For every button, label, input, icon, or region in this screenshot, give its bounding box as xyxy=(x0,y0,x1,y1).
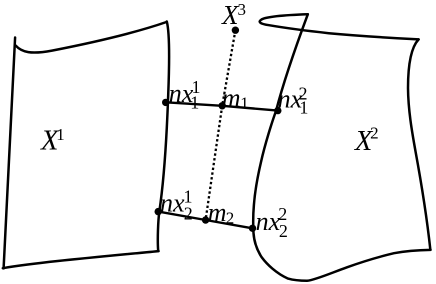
segment nx21-m2-nx22 xyxy=(158,212,252,229)
segment nx11-m1-nx12 xyxy=(166,102,278,110)
node m1 dot xyxy=(219,102,226,109)
svg-text:1: 1 xyxy=(190,92,199,112)
patch X2 top curl xyxy=(260,14,419,39)
svg-text:nx: nx xyxy=(160,188,185,217)
node nx22 dot xyxy=(249,225,256,232)
node nx11 dot xyxy=(162,99,169,106)
patch X1 right edge xyxy=(158,22,169,251)
patch X2 left edge and bottom edge xyxy=(253,14,430,281)
svg-text:m: m xyxy=(222,84,241,113)
patch X1 top edge xyxy=(15,22,166,53)
svg-text:2: 2 xyxy=(370,124,379,143)
node X3 dot xyxy=(232,27,239,34)
svg-text:1: 1 xyxy=(56,125,64,144)
dotted median X3 line xyxy=(206,30,236,220)
node nx12 dot xyxy=(274,107,281,114)
node m2 dot xyxy=(202,216,209,223)
patch X2 right edge xyxy=(408,39,430,249)
svg-text:2: 2 xyxy=(184,204,193,224)
patch X1 left edge xyxy=(4,38,16,269)
patch X1 bottom edge xyxy=(3,251,159,268)
svg-text:3: 3 xyxy=(238,0,247,19)
svg-text:m: m xyxy=(208,198,227,227)
svg-text:2: 2 xyxy=(279,221,288,241)
node nx21 dot xyxy=(155,208,162,215)
svg-text:1: 1 xyxy=(299,97,308,117)
svg-text:2: 2 xyxy=(226,209,235,228)
svg-text:nx: nx xyxy=(256,207,281,236)
svg-text:1: 1 xyxy=(240,93,249,112)
